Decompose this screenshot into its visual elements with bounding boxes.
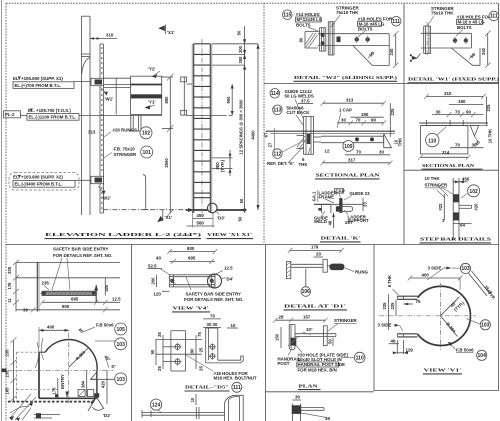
W2 dim 240 bbox=[389, 31, 399, 68]
panel divider under V1 bbox=[374, 390, 499, 392]
svg-text:695: 695 bbox=[188, 256, 196, 261]
FB 50x6 + balloon 105 bbox=[77, 323, 126, 336]
title W2 bbox=[294, 75, 398, 81]
svg-text:28: 28 bbox=[279, 315, 284, 320]
support W2 bracket bbox=[91, 176, 111, 200]
title detail at D1 bbox=[284, 304, 348, 310]
K cap note bbox=[335, 188, 345, 197]
svg-text:ELEVATION LADDER L-2 (244*): ELEVATION LADDER L-2 (244*) bbox=[45, 232, 202, 237]
dim 150 left PLAN bbox=[275, 327, 281, 348]
svg-text:103: 103 bbox=[461, 266, 470, 272]
svg-text:STRINGER: STRINGER bbox=[334, 318, 358, 323]
svg-text:PL-2: PL-2 bbox=[5, 112, 15, 117]
svg-text:3 SIDE: 3 SIDE bbox=[378, 322, 392, 327]
svg-text:110: 110 bbox=[428, 138, 436, 144]
svg-text:103: 103 bbox=[117, 377, 126, 383]
dim 190 right bbox=[449, 99, 484, 104]
inner border right bbox=[498, 3, 500, 390]
svg-text:(TYP.): (TYP.) bbox=[220, 159, 225, 172]
K ladder frame note bbox=[319, 191, 338, 204]
dim 179 bbox=[288, 245, 344, 257]
svg-text:F.B 50x6: F.B 50x6 bbox=[96, 323, 114, 328]
svg-text:'D4': 'D4' bbox=[226, 277, 234, 282]
panel divider bottom mid vertical bbox=[265, 245, 267, 421]
balloon 110 bbox=[426, 127, 446, 147]
svg-text:75x10 THK: 75x10 THK bbox=[336, 10, 359, 15]
#20 RUNGS + balloon 102 bbox=[104, 127, 152, 139]
panel divider under PLAN bbox=[266, 391, 375, 393]
sectional arm plan bbox=[321, 136, 384, 143]
svg-text:101: 101 bbox=[143, 150, 152, 156]
svg-text:70: 70 bbox=[356, 149, 361, 154]
svg-text:225: 225 bbox=[390, 302, 395, 310]
balloon 103 top bbox=[95, 338, 127, 350]
dim 225 right panel bbox=[486, 96, 491, 126]
svg-text:HANDRAIL POST SIDE: HANDRAIL POST SIDE bbox=[298, 362, 346, 367]
dim 190 bbox=[351, 112, 384, 117]
svg-text:SECTIONAL PLAN: SECTIONAL PLAN bbox=[316, 173, 381, 178]
balloon 103 right V1 bbox=[467, 319, 491, 330]
grade dash line bbox=[103, 209, 187, 211]
detail circle D3 bbox=[208, 203, 225, 220]
ladder stringer side view bbox=[100, 44, 104, 213]
svg-text:50: 50 bbox=[239, 198, 244, 203]
stringer in plan bbox=[304, 116, 322, 154]
svg-text:FOR DETAILS REF. SHT. NO.: FOR DETAILS REF. SHT. NO. bbox=[53, 253, 112, 258]
section arrow X1 top bbox=[158, 25, 174, 36]
svg-text:50: 50 bbox=[237, 216, 242, 221]
K guide weld note bbox=[314, 211, 328, 224]
svg-text:WELD: WELD bbox=[314, 219, 327, 224]
W2 note #14 holes bbox=[296, 12, 323, 32]
right post with arrow bbox=[94, 278, 109, 303]
svg-text:75x10 THK: 75x10 THK bbox=[431, 11, 454, 16]
svg-text:6 THK: 6 THK bbox=[387, 275, 392, 287]
svg-text:150: 150 bbox=[275, 333, 280, 341]
svg-text:FOR DETAILS REF. SHT. NO.: FOR DETAILS REF. SHT. NO. bbox=[184, 297, 243, 302]
hole note + balloon 110 bbox=[296, 346, 365, 373]
cage center lines bbox=[8, 333, 114, 403]
base plate plan bbox=[420, 126, 468, 154]
ENTRY text arrow bbox=[60, 374, 69, 398]
svg-text:420: 420 bbox=[101, 380, 106, 388]
balloon 111 (W2) bbox=[391, 16, 401, 26]
svg-text:27: 27 bbox=[268, 142, 273, 147]
dim 52.5 12.5 bbox=[148, 263, 234, 275]
35x6 TYP leader bbox=[469, 271, 497, 301]
V1 center lines bbox=[379, 283, 476, 350]
svg-text:'W2': 'W2' bbox=[102, 196, 111, 201]
svg-text:106: 106 bbox=[302, 289, 311, 295]
svg-text:'D3': 'D3' bbox=[217, 216, 225, 221]
svg-text:SAFETY BAR SIDE ENTRY: SAFETY BAR SIDE ENTRY bbox=[53, 247, 108, 252]
FB 50x6 + balloon 104 bbox=[448, 342, 487, 360]
V1 stubs bbox=[397, 296, 417, 337]
gusset triangle right bbox=[384, 134, 403, 148]
svg-text:'W1': 'W1' bbox=[105, 97, 114, 102]
panel divider W2|W1 vertical bbox=[403, 3, 405, 244]
svg-text:179: 179 bbox=[311, 245, 319, 250]
svg-text:114: 114 bbox=[271, 91, 279, 97]
rung PLAN bbox=[295, 327, 336, 336]
svg-text:313: 313 bbox=[346, 98, 354, 103]
svg-text:M-16 x45 LG: M-16 x45 LG bbox=[359, 21, 385, 26]
svg-text:DETAIL "W2" (SLIDING SUPP.): DETAIL "W2" (SLIDING SUPP.) bbox=[294, 75, 398, 80]
dashed platform outline bbox=[17, 352, 59, 402]
svg-text:560: 560 bbox=[197, 221, 205, 226]
bottom dims 12 70 30 317 6THK bbox=[299, 148, 393, 167]
svg-text:111: 111 bbox=[490, 14, 498, 20]
svg-text:102: 102 bbox=[469, 189, 478, 195]
svg-text:1 CAP: 1 CAP bbox=[339, 108, 352, 113]
svg-text:900: 900 bbox=[226, 96, 231, 104]
svg-text:12: 12 bbox=[325, 148, 330, 153]
svg-text:EL. +105.700 (T.O.S.): EL. +105.700 (T.O.S.) bbox=[28, 108, 71, 113]
svg-text:120: 120 bbox=[154, 291, 162, 296]
balloon 102 step bbox=[461, 185, 480, 198]
W2 sliding guide plate bbox=[328, 22, 340, 55]
balloon 106 bbox=[301, 269, 311, 297]
svg-text:#22: #22 bbox=[438, 203, 443, 211]
svg-text:25: 25 bbox=[198, 366, 203, 371]
dim 40 695 bbox=[156, 256, 215, 264]
svg-text:BOLTS: BOLTS bbox=[296, 22, 311, 27]
svg-text:157: 157 bbox=[303, 315, 311, 320]
dim 400 V1 bbox=[408, 272, 463, 290]
left border elevation marker bbox=[2, 369, 7, 373]
dim 120 bbox=[154, 291, 170, 296]
svg-text:25T: 25T bbox=[345, 220, 353, 225]
D5 holes note bbox=[186, 355, 257, 380]
svg-text:50: 50 bbox=[150, 349, 155, 354]
svg-text:M16 HEX. BOLT/NUT: M16 HEX. BOLT/NUT bbox=[214, 375, 257, 380]
svg-text:F.B. 75x10: F.B. 75x10 bbox=[114, 147, 136, 152]
svg-text:450: 450 bbox=[197, 213, 205, 218]
wall line right bbox=[419, 120, 488, 126]
W1 note stringer bbox=[428, 6, 455, 26]
3 SIDE left + flag bbox=[378, 322, 404, 331]
balloon 114 + guide note bbox=[270, 89, 314, 119]
left small dims 67 27 bbox=[264, 128, 275, 152]
svg-text:115: 115 bbox=[283, 12, 291, 18]
svg-text:BOLTS: BOLTS bbox=[457, 25, 472, 30]
svg-text:RUNG: RUNG bbox=[355, 270, 369, 275]
svg-text:300: 300 bbox=[238, 56, 243, 64]
PLAN dims 28 157 bbox=[273, 315, 328, 323]
svg-text:12 SPACINGS @ 300 = 3600: 12 SPACINGS @ 300 = 3600 bbox=[239, 99, 244, 155]
svg-text:450: 450 bbox=[462, 176, 470, 181]
svg-text:25: 25 bbox=[157, 332, 162, 337]
label Y2 bbox=[148, 67, 160, 79]
svg-text:10°: 10° bbox=[306, 327, 313, 332]
ladder center line bbox=[201, 39, 203, 217]
svg-text:75: 75 bbox=[416, 299, 421, 304]
dim 46 129 bbox=[389, 338, 414, 354]
W1 support arm bbox=[421, 33, 480, 65]
D1 rung bbox=[291, 259, 345, 272]
svg-text:PLAN: PLAN bbox=[299, 383, 319, 388]
cage plan: dim 400 bbox=[39, 325, 69, 349]
EL +105.700 TOS label bbox=[4, 108, 163, 120]
svg-text:DETAIL AT 'D1': DETAIL AT 'D1' bbox=[284, 304, 346, 309]
title W1 bbox=[408, 77, 500, 83]
ladder rungs front view bbox=[194, 44, 211, 198]
svg-text:0°: 0° bbox=[112, 364, 116, 369]
panel divider bottom left vertical bbox=[131, 245, 133, 421]
svg-text:800: 800 bbox=[187, 246, 195, 251]
platform legs bbox=[129, 115, 143, 132]
svg-text:30: 30 bbox=[341, 118, 346, 123]
D2 label + arrows bbox=[88, 397, 111, 419]
svg-text:#20 RUNGS: #20 RUNGS bbox=[113, 128, 137, 133]
balloon 113 + cut back note bbox=[273, 105, 311, 125]
D5 dim 70 bbox=[203, 314, 238, 329]
bottom left scribbles bbox=[9, 338, 60, 421]
title sectional plan right bbox=[422, 163, 483, 169]
svg-text:70: 70 bbox=[455, 142, 460, 147]
dim 695 12.5 bbox=[40, 297, 121, 305]
svg-text:190: 190 bbox=[361, 112, 369, 117]
svg-text:SAFETY BAR SIDE ENTRY: SAFETY BAR SIDE ENTRY bbox=[186, 291, 241, 296]
W2 note stringer bbox=[331, 6, 360, 28]
svg-text:25: 25 bbox=[198, 347, 203, 352]
svg-text:46: 46 bbox=[327, 220, 332, 225]
svg-text:800: 800 bbox=[62, 304, 70, 309]
R384 V1 bbox=[440, 316, 457, 337]
guide angle hatch left bbox=[297, 136, 309, 150]
svg-text:EL.(-)1100 FROM B.T.L.: EL.(-)1100 FROM B.T.L. bbox=[29, 115, 77, 120]
D5 dims left bbox=[150, 332, 202, 371]
svg-text:112: 112 bbox=[273, 151, 281, 157]
svg-text:30: 30 bbox=[23, 307, 28, 312]
svg-text:300: 300 bbox=[238, 45, 243, 53]
svg-text:GUIDE 23: GUIDE 23 bbox=[350, 191, 371, 196]
vessel column bbox=[82, 16, 91, 215]
svg-text:310: 310 bbox=[106, 33, 114, 38]
dim 310 bbox=[424, 91, 486, 99]
svg-text:10: 10 bbox=[231, 323, 236, 328]
vessel wall line bbox=[266, 131, 396, 133]
K dim 46 bbox=[327, 213, 335, 228]
svg-text:ENTRY: ENTRY bbox=[60, 374, 65, 389]
title view V4 bbox=[172, 306, 210, 312]
W1 stringer plates bbox=[424, 22, 431, 57]
section top line bbox=[16, 261, 120, 263]
svg-text:THK: THK bbox=[299, 162, 309, 167]
svg-text:111: 111 bbox=[233, 385, 241, 391]
safety bar note bbox=[52, 247, 112, 290]
bottom scrap below plan bbox=[292, 395, 331, 421]
dim 313 bbox=[321, 98, 387, 106]
title elevation bbox=[45, 232, 254, 239]
base dim arrows bbox=[188, 208, 194, 212]
title detail D5 + balloon 111 bbox=[185, 382, 242, 392]
svg-text:75: 75 bbox=[197, 332, 202, 337]
svg-text:VIEW 'X1 X1': VIEW 'X1 X1' bbox=[207, 232, 252, 237]
V4 safety bar note bbox=[184, 277, 243, 302]
title sectional plan left bbox=[315, 173, 381, 179]
svg-text:FRAME: FRAME bbox=[319, 194, 335, 199]
svg-text:90: 90 bbox=[466, 109, 471, 114]
svg-text:225: 225 bbox=[486, 104, 491, 112]
svg-text:200: 200 bbox=[150, 277, 155, 285]
svg-text:176: 176 bbox=[7, 282, 12, 290]
K main lines bbox=[314, 198, 363, 213]
handrail post at grade bbox=[143, 175, 148, 210]
dim 37.5 bbox=[298, 98, 313, 103]
svg-text:400: 400 bbox=[422, 272, 430, 277]
svg-text:80: 80 bbox=[299, 37, 304, 42]
svg-text:165: 165 bbox=[5, 387, 10, 395]
V1 hoop circle bbox=[418, 286, 471, 345]
dim 225 right bbox=[390, 103, 395, 137]
panel divider vertical elevation/details bbox=[263, 3, 265, 244]
svg-text:40: 40 bbox=[156, 256, 161, 261]
svg-text:20: 20 bbox=[316, 252, 321, 257]
inner border left bbox=[5, 3, 7, 421]
svg-text:103: 103 bbox=[117, 342, 126, 348]
svg-text:185: 185 bbox=[104, 284, 109, 292]
svg-text:102: 102 bbox=[142, 131, 151, 137]
dim 310 top bbox=[90, 33, 117, 40]
dim 450 560 bbox=[187, 211, 215, 228]
stringer boxes in plan bbox=[78, 390, 94, 397]
svg-text:225: 225 bbox=[390, 108, 395, 116]
dim 800 30 bbox=[16, 304, 120, 312]
svg-text:F.B 50x6: F.B 50x6 bbox=[456, 347, 474, 352]
svg-text:314: 314 bbox=[442, 150, 450, 155]
dim 300 TYP bbox=[212, 150, 233, 176]
svg-text:30: 30 bbox=[379, 149, 384, 154]
svg-text:STEP BAR DETAILS: STEP BAR DETAILS bbox=[420, 237, 492, 242]
W1 left weld clip bbox=[410, 54, 421, 62]
svg-text:DETAIL–"D5": DETAIL–"D5" bbox=[185, 385, 229, 390]
dim 12 SPACINGS bbox=[239, 99, 244, 155]
svg-text:235: 235 bbox=[382, 302, 387, 310]
svg-text:36: 36 bbox=[325, 416, 330, 421]
note 3 SIDE top + flag + balloon 103 bbox=[427, 263, 471, 280]
left dims 235 235 165 bbox=[5, 337, 17, 401]
svg-text:50: 50 bbox=[328, 339, 333, 344]
svg-text:30: 30 bbox=[436, 109, 441, 114]
gusset triangle right panel bbox=[470, 126, 481, 147]
F.B. 75x10 STRINGER + balloon 101 bbox=[104, 146, 153, 158]
svg-text:DETAIL 'W1' (FIXED SUPP.): DETAIL 'W1' (FIXED SUPP.) bbox=[408, 77, 500, 82]
svg-text:25: 25 bbox=[157, 366, 162, 371]
svg-text:12.5: 12.5 bbox=[112, 297, 121, 302]
handrail post PLAN bbox=[288, 325, 299, 350]
cage circle bbox=[39, 340, 97, 399]
D1 stringer bar bbox=[287, 262, 291, 279]
outer sheet border left bbox=[1, 0, 3, 421]
title detail K bbox=[320, 236, 361, 242]
svg-text:850: 850 bbox=[164, 96, 169, 104]
svg-text:12.5: 12.5 bbox=[224, 266, 233, 271]
svg-text:11: 11 bbox=[7, 298, 12, 303]
svg-text:400: 400 bbox=[47, 325, 55, 330]
svg-text:104: 104 bbox=[478, 353, 487, 359]
V4 bar bbox=[169, 275, 216, 287]
svg-text:235: 235 bbox=[42, 281, 50, 286]
W2 note #18 holes bbox=[358, 16, 393, 37]
svg-text:190: 190 bbox=[190, 348, 195, 356]
svg-text:30: 30 bbox=[207, 322, 212, 327]
stringer note PLAN bbox=[328, 318, 358, 331]
balloon 103 lower bbox=[91, 372, 127, 385]
inner border top bbox=[6, 2, 499, 4]
svg-text:240: 240 bbox=[389, 48, 394, 56]
support W1 bracket bbox=[91, 78, 131, 101]
svg-text:REF. DET. 'K': REF. DET. 'K' bbox=[267, 161, 294, 166]
balloon 112 + ref det K bbox=[267, 140, 305, 166]
section arrow X1 bottom bbox=[157, 210, 172, 223]
dim 450 step bbox=[452, 176, 469, 183]
dim 800 V4 bbox=[167, 246, 217, 254]
dim 175 bbox=[52, 378, 58, 398]
svg-text:POST: POST bbox=[278, 361, 290, 366]
section second line bbox=[16, 277, 120, 279]
svg-text:'X1': 'X1' bbox=[167, 30, 174, 35]
post left bbox=[37, 262, 49, 311]
svg-text:190: 190 bbox=[458, 99, 466, 104]
base thick line bbox=[186, 209, 247, 211]
corner post blob bbox=[94, 393, 99, 397]
dim 384 420 bbox=[80, 370, 107, 403]
svg-text:235: 235 bbox=[5, 349, 10, 357]
W2 stringer plates bbox=[320, 28, 326, 51]
svg-text:CUT BACK: CUT BACK bbox=[287, 110, 311, 115]
step rung bbox=[459, 205, 472, 208]
platform bracket on front ladder bbox=[181, 77, 193, 115]
svg-text:105: 105 bbox=[117, 327, 126, 333]
dim 50 PLAN bbox=[328, 338, 334, 347]
svg-text:313: 313 bbox=[88, 130, 96, 135]
balloon 111 (W1) bbox=[489, 11, 499, 21]
svg-text:STRINGER: STRINGER bbox=[114, 152, 138, 157]
svg-text:'D2': 'D2' bbox=[103, 413, 111, 418]
svg-text:'Y1': 'Y1' bbox=[148, 100, 155, 105]
svg-text:110: 110 bbox=[356, 355, 364, 361]
ladder front view rails bbox=[192, 44, 212, 213]
dim 200 left bbox=[150, 275, 156, 287]
svg-text:10: 10 bbox=[190, 397, 195, 402]
svg-text:EL. +106.600 (SUPP. X1): EL. +106.600 (SUPP. X1) bbox=[13, 76, 63, 81]
svg-text:240: 240 bbox=[481, 47, 486, 55]
balloon 109 bbox=[343, 141, 354, 152]
svg-text:#20: #20 bbox=[473, 203, 478, 211]
svg-text:37.5: 37.5 bbox=[301, 98, 310, 103]
svg-text:FOR M18 HEX. B/N: FOR M18 HEX. B/N bbox=[298, 368, 337, 373]
hatched platform edge bbox=[40, 291, 98, 295]
svg-text:10 THK: 10 THK bbox=[488, 129, 493, 143]
svg-text:BOLTS: BOLTS bbox=[358, 27, 373, 32]
left dim chain 235 176 11 bbox=[7, 260, 19, 312]
panel divider sectional/stepbar right bbox=[404, 169, 499, 171]
svg-text:113: 113 bbox=[273, 108, 281, 114]
svg-text:124: 124 bbox=[152, 403, 161, 409]
K guide note bbox=[344, 191, 370, 200]
label Y1 bbox=[145, 100, 156, 110]
panel divider horizontal mid sheet bbox=[6, 244, 499, 246]
svg-text:109: 109 bbox=[344, 144, 353, 150]
svg-text:EL. +103.900 (SUPP. X2): EL. +103.900 (SUPP. X2) bbox=[13, 175, 63, 180]
W2 arm bolts bbox=[355, 36, 370, 43]
svg-text:'Y2': 'Y2' bbox=[148, 67, 155, 72]
rung note bbox=[345, 268, 369, 275]
bottom cut bar bbox=[142, 394, 225, 419]
svg-text:23: 23 bbox=[362, 202, 367, 207]
D5 angle bracket bbox=[190, 328, 244, 371]
